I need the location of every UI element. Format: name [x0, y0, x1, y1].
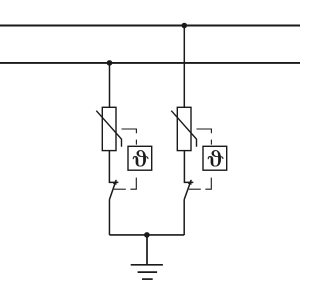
- node junction dot on L1: [182, 23, 188, 29]
- wire below switch S1: [108, 200, 110, 236]
- wire RV2 bottom to switch S2 contact: [184, 151, 193, 183]
- varistor RV2: [171, 107, 196, 150]
- switch S2 blade: [184, 180, 191, 200]
- varistor RV1: [96, 107, 121, 150]
- node junction dot bottom: [144, 232, 150, 238]
- node junction dot on L2: [107, 60, 113, 66]
- wire dashed link F2 to switch S2: [189, 178, 212, 190]
- wire bottom joining branch: [109, 234, 184, 236]
- wire dashed link RV2 to F2: [197, 129, 212, 145]
- thermal monitor F2 (theta box): [203, 146, 227, 170]
- wire RV1 bottom to switch S1 contact: [109, 151, 118, 183]
- wire bus line L1 (top horizontal): [0, 25, 300, 27]
- wire from L2 to varistor RV1: [109, 63, 111, 107]
- wire dashed link F1 to switch S1: [114, 178, 137, 190]
- wire ground stub: [146, 235, 148, 265]
- thermal monitor F1 (theta box): [128, 146, 152, 170]
- wire from L1 to varistor RV2: [183, 26, 185, 108]
- wire dashed link RV1 to F1: [122, 129, 137, 145]
- switch S2 arrowhead: [188, 179, 192, 185]
- wire below switch S2: [183, 200, 185, 236]
- wire bus line L2 (second horizontal): [0, 62, 300, 64]
- switch S1 arrowhead: [113, 179, 117, 185]
- switch S1 blade: [109, 180, 116, 200]
- ground symbol: [131, 265, 163, 279]
